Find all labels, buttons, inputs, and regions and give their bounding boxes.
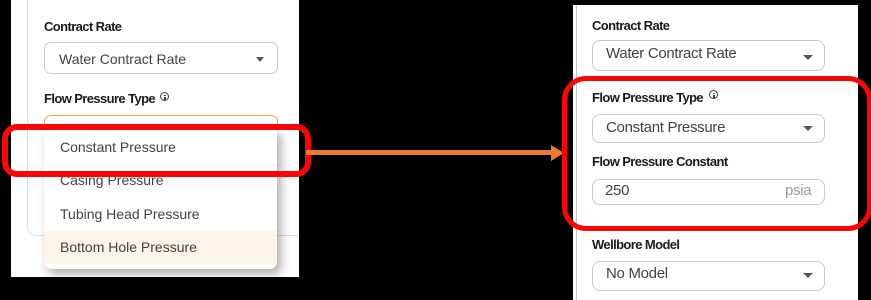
orange arrow head <box>551 145 564 161</box>
right: Wellbore Model label <box>592 237 679 252</box>
right: Flow Pressure Type label <box>592 90 703 105</box>
red annotation rect (left) <box>2 124 311 177</box>
dropdown popup <box>44 129 277 269</box>
left: open select (orange border) <box>44 115 279 130</box>
right panel inner gray line <box>576 5 577 300</box>
right: Contract Rate label <box>592 18 669 33</box>
left: Flow Pressure Type label <box>44 91 155 106</box>
right white panel <box>573 5 858 300</box>
right info icon <box>709 90 718 99</box>
left: Water Contract Rate select <box>44 42 279 74</box>
right: Constant Pressure select <box>592 114 825 143</box>
orange arrow shaft <box>306 150 552 155</box>
left: Contract Rate label <box>44 19 121 34</box>
left info icon <box>160 92 169 101</box>
red annotation rect (right) <box>562 76 871 231</box>
right: Water Contract Rate select <box>592 40 825 71</box>
right: No Model select <box>592 261 825 292</box>
right: Flow Pressure Constant label <box>592 154 728 169</box>
left card <box>27 0 317 236</box>
left white page <box>11 0 299 277</box>
right: 250 input <box>592 179 825 205</box>
